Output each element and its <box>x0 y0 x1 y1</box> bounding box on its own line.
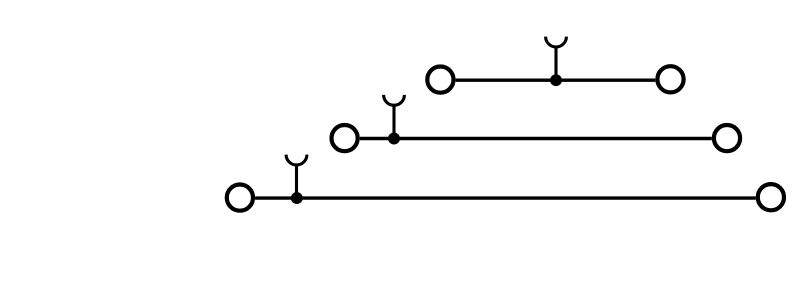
tap stem wire, level 1 <box>554 46 557 81</box>
tap stem wire, level 2 <box>392 104 395 139</box>
tap stem wire, level 3 <box>295 164 298 199</box>
junction dot, level 1 <box>550 74 562 86</box>
terminal circle, level 2 left <box>332 125 358 151</box>
terminal circle, level 1 left <box>427 67 453 93</box>
terminal circle, level 3 left <box>227 185 253 211</box>
terminal circle, level 2 right <box>714 125 740 151</box>
test socket symbol, level 3 <box>286 155 307 165</box>
junction dot, level 2 <box>388 133 400 145</box>
test socket symbol, level 1 <box>546 37 567 47</box>
terminal circle, level 1 right <box>657 66 683 92</box>
wire, level 3 <box>255 196 756 199</box>
wire, level 2 <box>360 137 712 140</box>
wire, level 1 <box>456 78 656 81</box>
junction dot, level 3 <box>291 192 303 204</box>
terminal circle, level 3 right <box>758 184 784 210</box>
test socket symbol, level 2 <box>384 95 405 105</box>
